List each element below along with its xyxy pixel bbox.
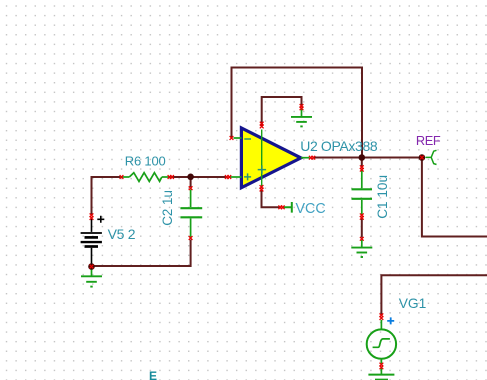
terminal x op-amp -in xyxy=(230,136,234,140)
junction node at REF xyxy=(419,154,426,161)
wire op-amp V+ pin to VCC jumper xyxy=(262,190,281,208)
wire R6 right to op-amp +in (node A) xyxy=(172,176,228,178)
terminal x op-amp top pin xyxy=(260,122,264,126)
terminal x C1 ground xyxy=(360,237,364,241)
wire C1 bottom to ground stub xyxy=(361,218,363,238)
junction node at R6/C2 xyxy=(187,174,194,181)
svg-text:VCC: VCC xyxy=(296,201,326,217)
terminal x C2 bottom xyxy=(189,236,193,240)
terminal x op-amp output xyxy=(309,156,313,160)
battery plus sign xyxy=(97,216,104,223)
svg-text:U2 OPAx388: U2 OPAx388 xyxy=(300,138,378,154)
capacitor C2 xyxy=(180,190,202,239)
junction node at output/C1 xyxy=(359,154,366,161)
wire C2 top stub xyxy=(190,177,192,187)
wire battery top to R6 left xyxy=(92,177,121,216)
ground above op-amp xyxy=(291,108,312,127)
terminal x ground above op-amp xyxy=(300,104,304,108)
terminal x R6 right xyxy=(168,175,172,179)
op-amp V-plus mark xyxy=(258,165,266,173)
svg-text:VG1: VG1 xyxy=(399,296,427,311)
voltage generator VG1 xyxy=(367,320,396,365)
terminal x R6 left xyxy=(120,175,124,179)
svg-text:R6 100: R6 100 xyxy=(125,154,166,169)
terminal x op-amp +in xyxy=(225,175,229,179)
wire right edge to VG1 top xyxy=(381,275,487,315)
terminal x op-amp bottom pin xyxy=(260,185,264,189)
REF node connector chevron xyxy=(426,150,437,164)
capacitor C1 xyxy=(352,170,373,216)
terminal x VG1 bottom xyxy=(380,363,384,367)
ground below VG1 xyxy=(368,368,394,380)
terminal x VCC jumper xyxy=(278,205,282,209)
wire op-amp top pin to ground xyxy=(262,97,302,126)
svg-text:REF: REF xyxy=(416,133,441,148)
svg-text:C2 1u: C2 1u xyxy=(160,190,175,226)
op-amp plus input mark xyxy=(244,173,251,180)
resistor R6 xyxy=(120,173,172,182)
terminal x VG1 top xyxy=(380,313,384,317)
battery V5 xyxy=(81,219,102,265)
wire REF node down and right to edge xyxy=(422,158,487,237)
wire feedback loop output to -in xyxy=(232,68,363,158)
terminal x C1 bottom xyxy=(360,213,364,217)
wire C2 bottom to battery bottom xyxy=(92,240,191,267)
terminal x C2 top xyxy=(189,186,193,190)
ground below C1 xyxy=(351,240,372,257)
terminal x battery top xyxy=(90,213,94,217)
op-amp U2 triangle xyxy=(241,128,301,188)
ground below battery xyxy=(81,268,102,287)
svg-text:C1 10u: C1 10u xyxy=(375,175,390,219)
junction node at battery bottom xyxy=(88,263,95,270)
op-amp internal power pin line xyxy=(261,130,263,187)
terminal x C1 top xyxy=(360,165,364,169)
svg-text:V5 2: V5 2 xyxy=(108,226,136,242)
op-amp minus input mark xyxy=(244,138,251,140)
svg-text:E: E xyxy=(149,369,157,380)
wire C1 top stub xyxy=(361,158,363,168)
VCC jumper xyxy=(284,202,292,213)
op-amp output lead xyxy=(301,157,310,159)
VG1 plus sign xyxy=(387,317,394,324)
op-amp -in lead xyxy=(234,137,242,139)
terminal x REF node xyxy=(420,156,424,160)
wire op-amp output to REF node xyxy=(313,157,422,159)
op-amp +in lead xyxy=(230,176,242,178)
terminal x battery bottom junction xyxy=(90,265,94,269)
